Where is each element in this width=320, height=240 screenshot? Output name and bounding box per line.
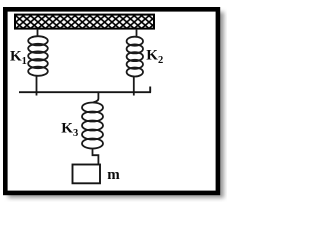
- svg-text:m: m: [107, 167, 120, 183]
